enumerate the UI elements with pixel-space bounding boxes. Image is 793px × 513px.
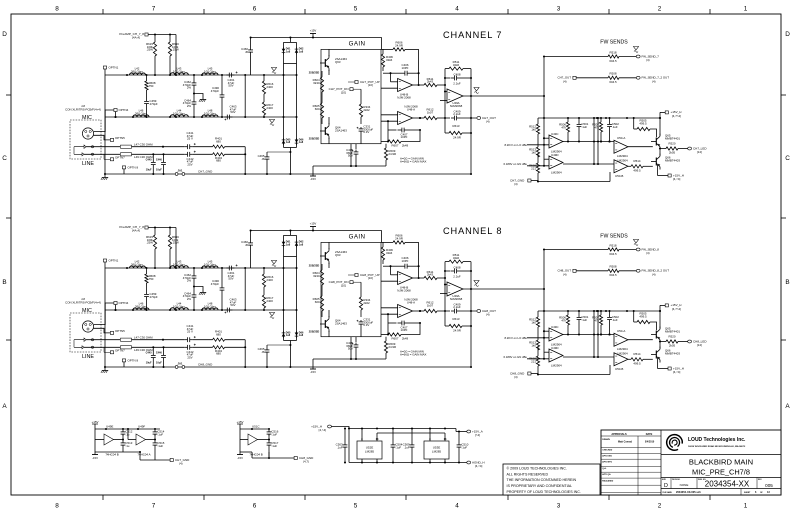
svg-text:J6: J6: [261, 157, 264, 161]
connector CH7_POT_UP: [355, 81, 358, 84]
resistor R512 1k0: [537, 118, 539, 124]
connector FW_SEND_7_2: [636, 76, 640, 79]
diode D61 1N4148 (channel 8): [282, 242, 286, 245]
reference U53E LM285: [424, 441, 449, 459]
svg-text:2k49: 2k49: [402, 336, 409, 340]
svg-text:360 Ohm: 360 Ohm: [131, 262, 143, 266]
capacitor C513 .1uF: [122, 434, 124, 441]
inductor L48 100 Ohm (channel 8): [202, 308, 218, 310]
svg-text:ALL RIGHTS RESERVED: ALL RIGHTS RESERVED: [507, 472, 549, 476]
capacitor C510 .1uF: [458, 432, 460, 444]
svg-text:(4): (4): [563, 80, 567, 84]
wire main output: [463, 95, 544, 97]
transistor Q63 2SA1463: [324, 59, 326, 67]
resistor R608 750 (channel 8): [146, 268, 148, 274]
svg-text:U49C: U49C: [551, 132, 559, 136]
svg-text:10uF: 10uF: [156, 362, 162, 365]
svg-text:6k30: 6k30: [313, 274, 320, 278]
wire row join: [244, 75, 246, 117]
wire LINE ring (channel 8): [84, 346, 120, 348]
title section: [661, 454, 781, 456]
svg-text:680: 680: [216, 159, 221, 163]
wire clamp rail B (channel 8): [296, 235, 298, 340]
wire fw send 1 (channel 8): [544, 249, 608, 251]
svg-text:A: A: [2, 403, 7, 410]
svg-text:2k02: 2k02: [363, 301, 370, 305]
svg-text:NJM2068: NJM2068: [450, 104, 463, 108]
inductor L45 100 Ohm (channel 8): [202, 266, 218, 268]
svg-text:7: 7: [152, 503, 156, 510]
op-amp U48B NJM2068: [398, 79, 413, 92]
svg-text:CH8_GND: CH8_GND: [510, 371, 525, 375]
svg-text:4: 4: [455, 503, 459, 510]
wire clamp mid: [284, 63, 297, 65]
inductor L43 100 Ohm: [170, 73, 188, 75]
svg-text:R613: R613: [453, 124, 460, 128]
svg-text:FW SENDS: FW SENDS: [600, 39, 628, 45]
svg-text:.1uF: .1uF: [581, 318, 587, 322]
wire line row 4: [132, 153, 185, 155]
power +15V: [310, 33, 316, 35]
svg-text:C446: C446: [156, 159, 163, 162]
svg-text:2.2uF: 2.2uF: [453, 305, 461, 309]
svg-text:2.2uF: 2.2uF: [453, 81, 461, 85]
svg-text:100 Ohm: 100 Ohm: [204, 69, 216, 73]
capacitor C490 470pF: [221, 75, 223, 93]
capacitor C405 68uF: [355, 144, 357, 150]
svg-text:8.2K/V on LO dBu: 8.2K/V on LO dBu: [504, 143, 527, 147]
svg-text:OPTN4: OPTN4: [119, 108, 129, 112]
wire meter mid rails (channel 8): [593, 311, 595, 357]
resistor R513 1k0: [537, 134, 539, 147]
svg-text:1: 1: [744, 6, 748, 13]
svg-text:MMBT4401: MMBT4401: [665, 330, 680, 334]
resistor R511 32k6: [445, 68, 449, 70]
svg-text:GAIN: GAIN: [349, 234, 366, 241]
svg-text:Q63: Q63: [335, 60, 341, 64]
connector CH8_LED (channel 8): [688, 340, 692, 343]
svg-text:6.189V on GN dBu: 6.189V on GN dBu: [504, 355, 528, 359]
svg-text:470pF: 470pF: [150, 295, 158, 299]
capacitor C517 .1uF: [268, 434, 270, 441]
svg-text:R514: R514: [634, 159, 641, 163]
svg-text:C445: C445: [146, 352, 153, 355]
connector OPTN5 (channel 8): [110, 331, 113, 334]
capacitor C445 (channel 8): [152, 347, 154, 353]
svg-text:Q.A.: Q.A.: [602, 467, 607, 470]
resistor R617 2400: [263, 94, 265, 102]
svg-text:J6: J6: [245, 243, 248, 247]
resistor R515 221 (channel 8): [537, 347, 539, 356]
row ticks right: [781, 94, 786, 96]
svg-text:50V: 50V: [230, 303, 235, 307]
svg-text:[4,˄4]: [4,˄4]: [673, 177, 681, 181]
connector OPTN1: [103, 66, 106, 69]
wire LINE ring: [84, 153, 120, 155]
wire -15V rail (channel 8): [313, 358, 386, 360]
svg-text:LOUD Technologies Inc.: LOUD Technologies Inc.: [688, 437, 746, 443]
svg-text:10uF: 10uF: [146, 169, 152, 172]
diode D61 1N4148: [282, 49, 286, 52]
svg-text:5: 5: [354, 503, 358, 510]
wire preamp feed (channel 8): [148, 227, 176, 229]
approvals table: [660, 430, 662, 495]
transistor Q64 2SA1463: [324, 127, 326, 135]
svg-text:2SB/2SD: 2SB/2SD: [309, 72, 320, 75]
svg-text:OPTN 8: OPTN 8: [128, 358, 139, 362]
svg-text:6: 6: [253, 503, 257, 510]
wire clamp bottom: [284, 147, 297, 149]
analog ground lower (channel 8): [269, 313, 274, 316]
inductor L45 100 Ohm: [202, 73, 218, 75]
resistor R401 680 (channel 8): [193, 339, 213, 341]
diode D62 1N4148: [295, 50, 299, 53]
svg-text:74HC04 A: 74HC04 A: [137, 453, 150, 457]
analog ground output: [474, 88, 479, 91]
svg-text:R520: R520: [669, 141, 676, 145]
capacitor C512 .1uF: [122, 430, 124, 432]
svg-text:U49D: U49D: [551, 153, 559, 157]
svg-text:[14]: [14]: [697, 343, 702, 347]
svg-text:JA1: JA1: [178, 169, 183, 173]
resistor R607 2k49 (channel 8): [381, 334, 388, 336]
svg-text:U50-B: U50-B: [615, 174, 623, 178]
svg-text:47k: 47k: [594, 318, 599, 322]
connector CH7_LED: [688, 147, 692, 150]
capacitor C409 2.2uF: [445, 117, 450, 119]
wire XLR pin 3: [94, 135, 110, 140]
svg-text:50V: 50V: [230, 110, 235, 114]
ground filter mid (channel 8): [193, 285, 195, 287]
svg-text:6.3V: 6.3V: [363, 323, 369, 327]
svg-text:+15V: +15V: [310, 222, 317, 226]
wire clamp bridge: [289, 38, 291, 43]
svg-text:B: B: [2, 279, 6, 286]
svg-text:24.9R: 24.9R: [395, 237, 403, 241]
svg-text:1u8: 1u8: [299, 141, 304, 144]
wire channel bottom rail (channel 8): [105, 366, 471, 368]
svg-text:1u8: 1u8: [286, 334, 291, 337]
svg-text:6.3V: 6.3V: [363, 130, 369, 134]
svg-text:OPTN5: OPTN5: [115, 136, 125, 140]
resistor R506 47k: [567, 118, 569, 122]
connector OPTN4: [114, 109, 117, 112]
wire main output (channel 8): [463, 288, 544, 290]
svg-text:.25W: .25W: [172, 48, 179, 52]
svg-text:LM285: LM285: [365, 450, 375, 454]
ferrite L49 C30 OHM: [121, 153, 132, 156]
svg-text:R613: R613: [453, 317, 460, 321]
svg-text:[10]: [10]: [368, 276, 373, 280]
svg-text:OPTN1: OPTN1: [109, 258, 119, 262]
svg-text:470pF: 470pF: [211, 89, 219, 93]
svg-text:.1uF: .1uF: [157, 444, 163, 448]
size and number row: [661, 477, 781, 479]
wire feedback rails (channel 8): [444, 262, 446, 326]
wire fw rail (channel 8): [543, 250, 545, 312]
capacitor C463 47uF (channel 8): [224, 309, 227, 311]
svg-text:32k6: 32k6: [453, 256, 460, 260]
svg-text:2%: 2%: [187, 104, 192, 108]
svg-text:499.5: 499.5: [633, 361, 641, 365]
svg-text:2.2uF: 2.2uF: [453, 112, 461, 116]
wire line row 4 (channel 8): [132, 346, 185, 348]
svg-text:.1uF: .1uF: [612, 318, 618, 322]
svg-text:CON XLR/TRS-PCB/F(4+4): CON XLR/TRS-PCB/F(4+4): [65, 108, 101, 112]
svg-text:A: A: [785, 403, 790, 410]
svg-text:360 Ohm: 360 Ohm: [135, 111, 147, 115]
svg-text:(4): (4): [486, 119, 490, 123]
capacitor C445: [152, 154, 154, 160]
op-amp U49A NJM2068: [447, 89, 463, 103]
svg-text:-15V: -15V: [92, 456, 98, 460]
svg-text:+15V: +15V: [236, 420, 243, 424]
svg-text:AP'D ENG: AP'D ENG: [602, 455, 612, 458]
svg-text:[4,˄4]: [4,˄4]: [475, 464, 483, 468]
capacitor C446 (channel 8): [163, 347, 165, 353]
capacitor C407 10PF: [388, 129, 397, 131]
svg-text:U49F: U49F: [138, 425, 145, 429]
ferrite L47 C30 OHM: [121, 145, 132, 148]
svg-text:CHANNEL 7: CHANNEL 7: [443, 30, 502, 40]
connector CH7_OUT: [477, 117, 481, 120]
capacitor C407 10PF (channel 8): [388, 322, 397, 324]
svg-text:.1uF: .1uF: [157, 432, 163, 436]
svg-text:25V: 25V: [187, 162, 192, 166]
wire clamp rail A: [283, 42, 285, 147]
resistor R506 47k (channel 8): [567, 311, 569, 315]
svg-text:U48-A: U48-A: [407, 107, 415, 111]
svg-text:R520: R520: [669, 334, 676, 338]
power -15V (channel 8): [310, 368, 316, 370]
svg-text:2034354-XX: 2034354-XX: [705, 479, 750, 488]
svg-text:.1uF: .1uF: [337, 445, 343, 449]
svg-text:25 V: 25 V: [187, 330, 193, 334]
svg-text:[4A,4]: [4A,4]: [132, 229, 140, 233]
wire U49D out: [563, 163, 614, 165]
svg-text:MIC_PRE_CH7/8: MIC_PRE_CH7/8: [692, 468, 750, 477]
capacitor C514 .1uF: [154, 430, 156, 432]
svg-text:[10]: [10]: [368, 83, 373, 87]
svg-text:AP'D QA: AP'D QA: [602, 473, 611, 476]
svg-text:(4): (4): [563, 273, 567, 277]
resistor R513 1k0 (channel 8): [537, 327, 539, 340]
svg-text:600: 600: [315, 300, 320, 304]
svg-text:24.9R: 24.9R: [388, 152, 396, 156]
resistor R520 2k0 (channel 8): [660, 341, 666, 343]
wire clamp rail A (channel 8): [283, 235, 285, 340]
resistor R607 2k49: [381, 141, 388, 143]
capacitor C490 470pF (channel 8): [221, 268, 223, 286]
svg-text:U49D: U49D: [551, 346, 559, 350]
svg-text:750: 750: [149, 84, 154, 88]
svg-text:(4): (4): [646, 251, 650, 255]
wire meter mid rails: [593, 118, 595, 164]
svg-text:360 Ohm: 360 Ohm: [131, 69, 143, 73]
wire clamp bottom (channel 8): [284, 340, 297, 342]
capacitor C446: [163, 154, 165, 160]
wire U49C out (channel 8): [563, 334, 614, 336]
svg-text:R518: R518: [610, 51, 617, 55]
svg-text:2%: 2%: [187, 279, 192, 283]
svg-text:16220 WOOD-RED ROAD NE WOODIN: 16220 WOOD-RED ROAD NE WOODINVILLE, WA 9…: [688, 445, 746, 448]
connector FW_SEND_7: [636, 55, 640, 58]
svg-text:(4,7): (4,7): [303, 459, 309, 463]
wire vref mid rail: [377, 432, 445, 434]
connector OPTN1 (channel 8): [103, 259, 106, 262]
transistor Q63 2SA1463 (channel 8): [324, 252, 326, 260]
diode D66 1N4148: [295, 140, 299, 143]
resistor R512 1k0 (channel 8): [537, 311, 539, 317]
svg-text:8: 8: [55, 503, 59, 510]
connector +15V_H top: [659, 112, 661, 118]
svg-text:2SA1463: 2SA1463: [335, 129, 347, 133]
svg-text:2SA1463: 2SA1463: [335, 322, 347, 326]
svg-text:U50-B: U50-B: [615, 367, 623, 371]
svg-text:L47 C30 OHM: L47 C30 OHM: [134, 336, 153, 340]
svg-text:APPROVALS: APPROVALS: [611, 433, 627, 436]
svg-text:32k6: 32k6: [386, 58, 393, 62]
svg-text:2%: 2%: [187, 86, 192, 90]
capacitor C405 68uF (channel 8): [355, 337, 357, 343]
resistor R406 32k6 (channel 8): [382, 242, 384, 247]
capacitor C501: [578, 118, 580, 123]
svg-text:2400: 2400: [266, 299, 273, 303]
svg-text:[10]: [10]: [341, 91, 346, 95]
ground channel: [104, 174, 106, 177]
svg-text:LM2904: LM2904: [551, 364, 562, 368]
connector OPTN4 (channel 8): [114, 302, 117, 305]
resistor R507 47k (channel 8): [600, 311, 602, 315]
capacitor C464 470pF 2% (channel 8): [193, 280, 195, 293]
resistor R604 6k30: [321, 71, 323, 77]
analog ground upper (channel 8): [271, 261, 276, 264]
wire meter top rail (channel 8): [538, 310, 660, 312]
wire XLR pin 2 to filter: [94, 110, 114, 132]
svg-text:MMBT4403: MMBT4403: [665, 158, 680, 162]
svg-text:.1uF: .1uF: [612, 125, 618, 129]
transistor Q64 2SA1463 (channel 8): [324, 320, 326, 328]
svg-text:32k6: 32k6: [453, 63, 460, 67]
op-amp U48B NJM2068 (channel 8): [398, 272, 413, 285]
svg-text:U50-A: U50-A: [617, 136, 625, 140]
resistor R406 32k6: [382, 49, 384, 54]
svg-text:IS PROPRIETARY AND CONFIDENTIA: IS PROPRIETARY AND CONFIDENTIAL: [507, 484, 573, 488]
svg-text:-15V: -15V: [237, 456, 243, 460]
svg-text:R514: R514: [634, 352, 641, 356]
svg-text:DRAWN: DRAWN: [602, 438, 610, 441]
svg-text:100 Ohm: 100 Ohm: [173, 111, 185, 115]
column ticks top: [102, 9, 104, 14]
svg-text:.1uF: .1uF: [461, 445, 467, 449]
resistor R508 604 (channel 8): [608, 269, 619, 272]
svg-text:.25W: .25W: [146, 48, 153, 52]
svg-text:100 Ohm: 100 Ohm: [173, 69, 185, 73]
svg-text:24.9R: 24.9R: [453, 328, 461, 332]
svg-text:74HC04 B: 74HC04 B: [249, 453, 262, 457]
svg-text:J6: J6: [245, 50, 248, 54]
ground channel (channel 8): [104, 367, 106, 370]
resistor R605 600 (channel 8): [321, 288, 323, 296]
wire XLR pin 2 to filter (channel 8): [94, 303, 114, 325]
resistor R514 499: [628, 165, 631, 167]
resistor R615 100k (channel 8): [154, 228, 156, 236]
wire U49D out (channel 8): [563, 356, 614, 358]
capacitor C459 470pF (channel 8): [146, 283, 148, 293]
svg-text:499.5: 499.5: [633, 168, 641, 172]
capacitor C441 47uF 25V: [185, 146, 188, 148]
svg-text:1k0: 1k0: [531, 320, 536, 324]
capacitor C465: [266, 152, 268, 155]
svg-text:CON XLR/TRS-PCB/F(4+4): CON XLR/TRS-PCB/F(4+4): [65, 301, 101, 305]
file row: [661, 488, 781, 490]
svg-text:221: 221: [531, 166, 536, 170]
svg-text:U50-A: U50-A: [617, 329, 625, 333]
svg-text:1k0: 1k0: [531, 150, 536, 154]
inductor L48 100 Ohm: [202, 115, 218, 117]
capacitor C409 2.2uF (channel 8): [445, 310, 450, 312]
connector FW_SEND_8 (channel 8): [636, 248, 640, 251]
connector +15V_H bottom: [657, 165, 659, 176]
resistor R605 600: [321, 95, 323, 103]
wire clamp bridge (channel 8): [289, 231, 291, 236]
ferrite L47 C30 OHM (channel 8): [121, 338, 132, 341]
svg-text:U51C: U51C: [252, 425, 260, 429]
svg-text:[4,˄4]: [4,˄4]: [319, 428, 327, 432]
svg-text:PROPERTY OF LOUD TECHNOLOGIES: PROPERTY OF LOUD TECHNOLOGIES INC.: [507, 490, 581, 494]
svg-text:A=66Ω = GAIN MAX: A=66Ω = GAIN MAX: [400, 160, 426, 164]
analog ground lower: [269, 120, 274, 123]
svg-text:+15V: +15V: [310, 29, 317, 33]
svg-text:005: 005: [765, 483, 773, 488]
transistor Q66 MMBT4403 (channel 8): [655, 351, 657, 359]
svg-text:1: 1: [744, 503, 748, 510]
connector CH7_GND buffer: [170, 459, 173, 462]
svg-text:MIC: MIC: [82, 115, 92, 121]
svg-text:.1uF: .1uF: [581, 125, 587, 129]
svg-text:MMBT4403: MMBT4403: [665, 351, 680, 355]
svg-text:499.5: 499.5: [639, 122, 647, 126]
svg-text:MMBT4401: MMBT4401: [665, 137, 680, 141]
svg-text:R508: R508: [610, 265, 617, 269]
svg-text:.1uF: .1uF: [271, 444, 277, 448]
svg-text:(4): (4): [646, 58, 650, 62]
capacitor C462 470pF 2%: [193, 75, 195, 81]
svg-text:R508: R508: [610, 72, 617, 76]
transistor Q65 MMBT4401: [655, 138, 657, 146]
analog ground fw (channel 8): [633, 240, 638, 243]
svg-text:2400: 2400: [266, 278, 273, 282]
resistor R334 2k02: [360, 89, 362, 104]
resistor R507 47k: [600, 118, 602, 122]
svg-text:1k07: 1k07: [427, 111, 434, 115]
svg-text:680: 680: [216, 352, 221, 356]
svg-text:BLACKBIRD MAIN: BLACKBIRD MAIN: [689, 457, 753, 466]
wire buffer A bottom: [95, 451, 123, 453]
svg-text:.1u: .1u: [125, 444, 129, 448]
svg-text:10PF: 10PF: [402, 66, 409, 70]
capacitor C460 (channel 8): [250, 231, 252, 242]
resistor R334 2k02 (channel 8): [360, 282, 362, 297]
svg-text:24.9R: 24.9R: [388, 345, 396, 349]
analog ground output (channel 8): [474, 281, 479, 284]
resistor R617 2400 (channel 8): [263, 287, 265, 295]
svg-text:6.189V on GN dBu: 6.189V on GN dBu: [504, 162, 528, 166]
wire fw send 2: [576, 77, 608, 79]
power -15V: [310, 175, 316, 177]
svg-text:50V: 50V: [228, 277, 233, 281]
transistor Q66 MMBT4403: [655, 158, 657, 166]
